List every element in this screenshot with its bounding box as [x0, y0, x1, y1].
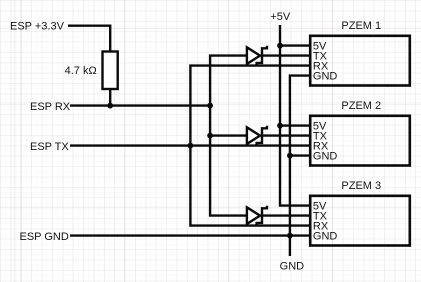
diode D2 triangle: [247, 127, 260, 144]
junction GND bus / PZEM2 GND: [287, 153, 293, 159]
svg-text:ESP GND: ESP GND: [20, 231, 69, 243]
wire D3 cathode to PZEM3 TX pin: [262, 214, 310, 216]
wire +5V to PZEM2 5V pin: [280, 124, 310, 126]
svg-text:PZEM 1: PZEM 1: [341, 20, 381, 32]
diode D1 schottky cathode bar: [257, 46, 267, 66]
wire D2 anode: [210, 134, 247, 136]
wire resistor R1 bottom to ESP RX line: [109, 89, 111, 106]
wire +5V bus down to PZEM3 5V pin: [280, 25, 310, 206]
junction +5V bus / PZEM1 5V: [277, 43, 283, 49]
junction resistor R1 / ESP RX: [107, 103, 113, 109]
svg-text:GND: GND: [313, 70, 338, 82]
diode D2 schottky cathode bar: [257, 126, 267, 146]
wire ESP TX line to PZEM2 RX pin: [70, 144, 310, 146]
diode D3 schottky cathode bar: [257, 206, 267, 226]
module PZEM 1 box: [310, 36, 410, 86]
diode D1 triangle: [247, 47, 260, 64]
wire GND bus to PZEM2 GND pin: [290, 154, 310, 156]
svg-text:PZEM 3: PZEM 3: [341, 180, 381, 192]
wire ESP GND line to PZEM3 GND pin: [70, 234, 310, 236]
wire +5V to PZEM1 5V pin: [280, 44, 310, 46]
wire GND bus from PZEM1 GND pin down: [290, 76, 310, 256]
wire TX bus with branches to PZEM1 RX and PZEM3 RX: [190, 66, 310, 226]
svg-text:GND: GND: [313, 230, 338, 242]
wire D1 cathode to PZEM1 TX pin: [262, 54, 310, 56]
svg-text:+5V: +5V: [270, 11, 291, 23]
svg-text:4.7 kΩ: 4.7 kΩ: [65, 65, 97, 77]
wire D2 cathode to PZEM2 TX pin: [262, 134, 310, 136]
svg-text:ESP +3.3V: ESP +3.3V: [10, 20, 65, 32]
junction anode bus / D2 anode: [207, 133, 213, 139]
module PZEM 2 box: [310, 116, 410, 166]
module PZEM 3 box: [310, 196, 410, 246]
resistor R1: [103, 52, 118, 90]
wire ESP RX line: [70, 104, 210, 106]
junction +5V bus / PZEM2 5V: [277, 123, 283, 129]
diode D3 triangle: [247, 207, 260, 224]
junction ESP TX / TX bus: [188, 143, 194, 149]
junction GND bus / ESP GND line: [287, 233, 293, 239]
wire ESP +3.3V to resistor R1 top: [68, 26, 110, 52]
svg-text:ESP RX: ESP RX: [30, 101, 71, 113]
junction ESP RX / anode bus: [207, 103, 213, 109]
svg-text:ESP TX: ESP TX: [30, 141, 69, 153]
svg-text:PZEM 2: PZEM 2: [341, 100, 381, 112]
svg-text:GND: GND: [313, 150, 338, 162]
svg-text:GND: GND: [280, 261, 305, 273]
wire anode bus with branches to D1 and D3: [210, 56, 247, 216]
